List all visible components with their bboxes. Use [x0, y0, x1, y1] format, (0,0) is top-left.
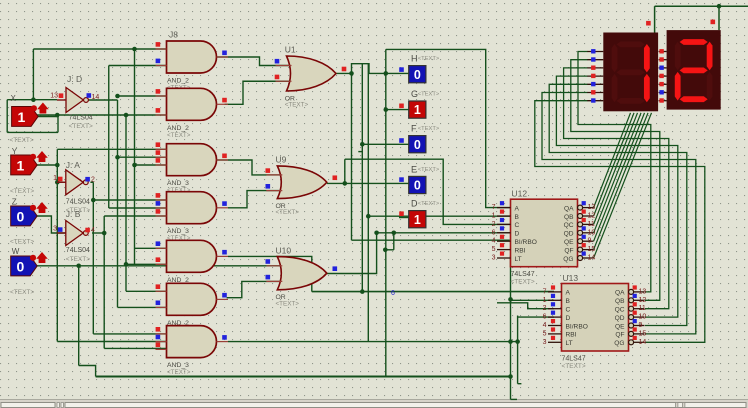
node junction 510.5,376.5 — [508, 374, 513, 379]
svg-text:9: 9 — [639, 322, 643, 329]
wire bottom trunk — [96, 376, 511, 378]
node junction 126,115 — [124, 113, 129, 118]
wire to inverter A input — [57, 181, 66, 183]
AND gate gate4 — [156, 192, 229, 243]
wire U12 C feeder — [345, 159, 511, 224]
node junction display2 top — [717, 4, 722, 9]
svg-text:0: 0 — [414, 68, 421, 82]
svg-text:C: C — [515, 222, 520, 229]
node junction invB out — [102, 231, 107, 236]
svg-text:QG: QG — [563, 256, 573, 263]
wire to gate4 B input — [109, 207, 167, 209]
svg-text:7: 7 — [543, 288, 547, 295]
svg-text:<TEXT>: <TEXT> — [10, 289, 34, 296]
node junction 117.5,157.2 — [115, 155, 120, 160]
svg-text:QD: QD — [615, 315, 625, 322]
svg-text:6: 6 — [492, 229, 496, 236]
svg-text:5: 5 — [492, 246, 496, 253]
wire gate6 output to U10 — [227, 281, 281, 297]
wire to gate3 B input — [118, 156, 167, 158]
wire U8 gate1 output to U1 — [217, 57, 291, 66]
logic probe G — [399, 89, 440, 118]
svg-text:QA: QA — [615, 290, 625, 297]
wire invA vertical — [92, 182, 94, 334]
svg-text:BI/RBO: BI/RBO — [566, 323, 588, 330]
wire to probe H — [386, 72, 409, 74]
wire U12 output diagonal 3 — [594, 113, 638, 224]
node X junction — [31, 97, 36, 102]
wire U10 output — [327, 233, 377, 274]
svg-text:D: D — [515, 231, 520, 238]
node junction G probe — [384, 107, 389, 112]
wire U12 output diagonal 1 — [594, 113, 631, 208]
wire top to U12 A — [386, 49, 511, 207]
node junction 393.8,232.8 — [392, 231, 397, 236]
svg-text:QD: QD — [564, 231, 574, 238]
svg-text:QG: QG — [614, 340, 624, 347]
wire to gate5 A input — [135, 247, 167, 249]
svg-text:0: 0 — [17, 208, 25, 224]
wire X output to loop — [34, 116, 58, 118]
node junction 93.3,200 — [91, 198, 96, 203]
svg-text:LT: LT — [515, 256, 522, 263]
inverter U2:B 74LS04 — [53, 209, 95, 263]
wire to gate5 B input — [126, 263, 167, 265]
wire display1 segment net 6 — [542, 93, 696, 334]
svg-text:4: 4 — [543, 322, 547, 329]
svg-text:1: 1 — [17, 157, 25, 173]
svg-text:14: 14 — [639, 339, 647, 346]
node junction 344.8,183.4 — [343, 181, 348, 186]
svg-text:6: 6 — [543, 314, 547, 321]
node Y junction — [55, 163, 60, 168]
svg-text:QB: QB — [564, 214, 574, 221]
wire to gate7 C input — [104, 347, 166, 349]
wire to U13 B input — [511, 299, 555, 301]
node junction 385.8,73.4 — [384, 71, 389, 76]
AND gate gate2 — [156, 88, 229, 139]
wire to gate6 A input — [126, 290, 167, 292]
wire bus x=126 — [125, 115, 127, 291]
svg-text:15: 15 — [588, 246, 596, 253]
svg-text:J: A: J: A — [66, 160, 81, 170]
wire display1 segment net 4 — [556, 76, 677, 317]
wire U12 output diagonal 2 — [594, 113, 634, 216]
wire U13 C feeder — [497, 303, 554, 309]
wire gate1 B feeder vertical — [108, 66, 110, 209]
svg-text:74LS47: 74LS47 — [511, 271, 535, 278]
svg-text:15: 15 — [639, 330, 647, 337]
svg-text:H: H — [411, 54, 418, 64]
wire vertical x=368.3 — [367, 64, 369, 342]
svg-text:AND_2: AND_2 — [167, 125, 189, 132]
wire U1 to BI/RBO vertical — [351, 73, 353, 240]
svg-text:<TEXT>: <TEXT> — [418, 92, 440, 98]
node junction 385.3,249.8 — [383, 248, 388, 253]
svg-text:E: E — [411, 164, 417, 174]
wire probe D stub — [399, 217, 409, 219]
svg-text:A: A — [566, 290, 571, 297]
svg-text:BI/RBO: BI/RBO — [515, 239, 537, 246]
OR gate U1 — [275, 45, 347, 109]
wire inverter D output — [88, 99, 118, 101]
wire U12 D row — [377, 232, 511, 234]
wire to gate7 B input — [57, 341, 166, 343]
AND gate gate6 — [156, 283, 229, 334]
svg-text:QC: QC — [615, 307, 625, 314]
wire W elbow — [79, 366, 96, 377]
wire display1 segment net 3 — [564, 68, 669, 309]
svg-text:J: B: J: B — [66, 209, 81, 219]
svg-text:F: F — [411, 124, 417, 134]
wire display1 segment net 7 — [535, 101, 705, 343]
decoder U12 74LS47 — [492, 189, 596, 286]
pin state square display1 top — [646, 21, 651, 26]
OR gate U9 — [266, 155, 338, 217]
node junction 517.6,341.6 — [515, 339, 520, 344]
svg-text:QC: QC — [564, 222, 574, 229]
svg-text:0: 0 — [17, 258, 25, 274]
wire inverter B output — [92, 232, 104, 234]
logic input W — [10, 247, 48, 296]
wire Y to gate3 A input — [57, 148, 166, 150]
wire to gate4 A input — [93, 199, 166, 201]
logic probe E — [399, 164, 440, 193]
svg-text:6: 6 — [391, 290, 395, 297]
svg-text:74LS04: 74LS04 — [69, 115, 93, 122]
wire U12 output diagonal 7 — [594, 113, 652, 258]
svg-text:QE: QE — [615, 323, 625, 330]
node junction 362.3,291.6 — [360, 289, 365, 294]
AND gate gate7 — [156, 326, 229, 377]
wire vertical x=510.5 — [510, 256, 512, 400]
svg-text:Y: Y — [12, 147, 18, 156]
decoder U13 74LS47 — [543, 273, 647, 370]
svg-text:<TEXT>: <TEXT> — [418, 201, 440, 207]
wire trunk to U13 A input — [312, 291, 554, 293]
logic probe D — [399, 199, 440, 228]
node junction 126,264.3 — [124, 262, 129, 267]
7-segment display DS1 showing 1 — [587, 33, 658, 112]
svg-text:<TEXT>: <TEXT> — [418, 56, 440, 62]
pin state square display2 top — [711, 20, 716, 25]
wire display2 top pin — [718, 6, 720, 30]
wire vertical x=517.6 — [517, 316, 519, 384]
svg-text:U1: U1 — [285, 45, 296, 55]
svg-text:C: C — [566, 307, 571, 314]
node junction D probe — [366, 214, 371, 219]
svg-text:12: 12 — [588, 213, 596, 220]
node junction 117.5,96 — [115, 94, 120, 99]
svg-text:1: 1 — [53, 175, 57, 182]
svg-text:14: 14 — [92, 94, 100, 101]
svg-text:<TEXT>: <TEXT> — [10, 239, 34, 246]
wire to gate6 B input — [118, 306, 167, 308]
wire display top common — [655, 5, 748, 7]
svg-text:<TEXT>: <TEXT> — [562, 363, 586, 370]
svg-text:5: 5 — [543, 330, 547, 337]
svg-text:LT: LT — [566, 340, 573, 347]
wire to gate3 C input — [135, 164, 167, 166]
svg-text:1: 1 — [17, 109, 25, 125]
wire X to gate U8:B input — [34, 114, 167, 116]
wire W output to U10 A input — [36, 265, 281, 267]
svg-text:<TEXT>: <TEXT> — [10, 188, 34, 195]
svg-text:10: 10 — [588, 229, 596, 236]
wire to U12 BI/RBO — [352, 239, 510, 241]
node W junction — [76, 264, 81, 269]
OR gate U10 — [266, 245, 338, 307]
svg-text:12: 12 — [639, 297, 647, 304]
svg-text:QA: QA — [564, 205, 574, 212]
svg-text:W: W — [12, 247, 20, 256]
logic input Y — [10, 147, 48, 195]
svg-text:J8: J8 — [169, 30, 178, 40]
svg-text:11: 11 — [639, 305, 646, 312]
svg-text:1: 1 — [414, 103, 421, 117]
wire to probe G — [386, 109, 409, 111]
wire U9 output to probe E — [327, 182, 409, 184]
wire inverter A output — [90, 181, 93, 183]
wire X top to inverter D input — [7, 99, 57, 101]
svg-text:<TEXT>: <TEXT> — [511, 279, 535, 286]
svg-text:2: 2 — [492, 221, 496, 228]
svg-text:RBI: RBI — [566, 332, 577, 339]
wire to U13 D input — [518, 316, 554, 318]
wire jog horizontal — [385, 249, 394, 251]
wire Y bus down — [56, 165, 58, 342]
logic probe F — [399, 124, 440, 153]
wire to gate1 B input — [109, 65, 167, 67]
svg-text:3: 3 — [543, 339, 547, 346]
svg-text:U12: U12 — [512, 189, 528, 199]
inverter U2:A 74LS04 — [53, 160, 95, 214]
svg-text:A: A — [515, 205, 520, 212]
wire display1 segment net 2 — [571, 60, 660, 301]
AND gate gate5 — [156, 240, 229, 290]
wire foot 510.5 — [511, 398, 518, 400]
wire foot 517.6 — [518, 383, 522, 385]
svg-text:1: 1 — [414, 213, 421, 227]
svg-text:4: 4 — [492, 238, 496, 245]
node junction 510.5,341.6 — [508, 339, 513, 344]
AND gate U8 (gate1) — [156, 30, 229, 92]
svg-text:AND_3: AND_3 — [167, 362, 189, 369]
svg-text:74LS47: 74LS47 — [562, 356, 586, 363]
svg-text:2: 2 — [543, 305, 547, 312]
wire jog 393.8 — [393, 233, 395, 250]
svg-text:4: 4 — [91, 227, 95, 234]
wire gate5 output — [228, 256, 312, 291]
wire display1 top pin — [654, 6, 656, 32]
svg-text:<TEXT>: <TEXT> — [66, 256, 90, 263]
svg-text:U13: U13 — [563, 273, 579, 283]
wire U12 output diagonal 6 — [594, 113, 648, 250]
svg-text:14: 14 — [588, 255, 596, 262]
wire U12 output diagonal 5 — [594, 113, 645, 241]
wire to gate7 A input — [93, 333, 166, 335]
wire U1 output — [336, 64, 386, 74]
svg-text:B: B — [515, 214, 520, 221]
wire stub row 151.6 — [358, 151, 362, 153]
wire to gate4 C input — [104, 215, 166, 217]
wire X to U8 gate A input — [33, 48, 166, 50]
svg-text:74LS04: 74LS04 — [66, 199, 90, 206]
svg-text:13: 13 — [639, 288, 647, 295]
svg-text:J: D: J: D — [67, 74, 82, 84]
wire gate7 output — [228, 341, 518, 343]
svg-text:Z: Z — [12, 198, 17, 207]
svg-text:13: 13 — [50, 93, 58, 100]
svg-text:<TEXT>: <TEXT> — [10, 137, 34, 144]
svg-text:7: 7 — [492, 204, 496, 211]
node junction 57.3,182.3 — [55, 180, 60, 185]
svg-text:13: 13 — [588, 204, 596, 211]
svg-text:0: 0 — [414, 138, 421, 152]
wire inverter D output vertical — [117, 100, 119, 307]
wire display1 segment net 5 — [549, 84, 687, 325]
wire gate2 output to U1 — [225, 81, 291, 104]
node junction 376.6,232.8 — [374, 231, 379, 236]
node junction 57.3,115 — [55, 113, 60, 118]
wire X up branch — [32, 49, 34, 100]
svg-text:<TEXT>: <TEXT> — [418, 167, 440, 173]
AND gate gate3 — [156, 142, 229, 194]
svg-text:D: D — [566, 315, 571, 322]
wire Y output — [36, 164, 58, 166]
wire X loop left vertical — [6, 100, 8, 133]
wire vertical bus x=385.8 — [385, 49, 387, 376]
logic input Z — [10, 198, 48, 246]
svg-text:0: 0 — [414, 179, 421, 193]
logic probe H — [399, 54, 440, 83]
node junction U1 out — [349, 71, 354, 76]
node bus junction at 134.5,49 — [132, 47, 137, 52]
wire to gate2 A input — [118, 95, 167, 97]
wire display1 segment net 1 — [578, 52, 651, 292]
svg-text:U9: U9 — [276, 155, 287, 165]
wire W down — [78, 266, 80, 366]
7-segment display DS2 showing 2 — [659, 30, 721, 110]
horizontal scrollbar — [0, 400, 748, 408]
svg-text:<TEXT>: <TEXT> — [418, 126, 440, 132]
svg-text:AND_2: AND_2 — [167, 78, 189, 85]
node junction 134.5,165 — [132, 163, 137, 168]
svg-text:U10: U10 — [276, 245, 292, 255]
svg-text:11: 11 — [588, 221, 595, 228]
svg-text:AND_3: AND_3 — [167, 180, 189, 187]
svg-text:<TEXT>: <TEXT> — [167, 369, 191, 376]
svg-text:B: B — [566, 298, 571, 305]
svg-text:9: 9 — [588, 238, 592, 245]
inverter U2:D 74LS04 — [50, 74, 99, 130]
svg-text:3: 3 — [53, 226, 57, 233]
svg-text:<TEXT>: <TEXT> — [167, 132, 191, 139]
wire vertical bus x=134.5 — [134, 49, 136, 264]
svg-text:1: 1 — [492, 213, 496, 220]
svg-text:<TEXT>: <TEXT> — [285, 102, 309, 109]
svg-text:<TEXT>: <TEXT> — [276, 209, 300, 216]
svg-text:1: 1 — [543, 297, 547, 304]
wire X loop bottom — [7, 131, 58, 133]
wire v 344.8 — [344, 159, 346, 183]
svg-text:10: 10 — [639, 314, 647, 321]
wire gate3 output to U9 — [217, 160, 282, 175]
wire U12 output diagonal 4 — [594, 113, 641, 233]
svg-text:QF: QF — [564, 247, 573, 254]
wire vertical x=362.3 — [361, 64, 363, 292]
wire gate4 output to U9 — [228, 191, 281, 208]
wire invB vertical — [103, 216, 105, 348]
svg-text:AND_3: AND_3 — [167, 228, 189, 235]
svg-text:X: X — [11, 94, 17, 103]
svg-text:QF: QF — [615, 332, 624, 339]
svg-text:RBI: RBI — [515, 247, 526, 254]
wire probe F feeder — [362, 143, 408, 145]
logic input X — [10, 94, 49, 144]
svg-text:QB: QB — [615, 298, 625, 305]
svg-text:<TEXT>: <TEXT> — [276, 300, 300, 307]
wire to probe D and U12 B — [368, 215, 510, 217]
wire Z output — [36, 216, 66, 233]
svg-text:74LS04: 74LS04 — [66, 247, 90, 254]
svg-text:3: 3 — [492, 255, 496, 262]
node junction 510.5,299.4 — [508, 297, 513, 302]
svg-text:2: 2 — [91, 177, 95, 184]
wire X loop right vertical — [57, 117, 59, 133]
wire Y up — [56, 149, 58, 165]
node junction 362.3,144.3 — [360, 142, 365, 147]
svg-text:QE: QE — [564, 239, 574, 246]
svg-text:<TEXT>: <TEXT> — [69, 123, 93, 130]
